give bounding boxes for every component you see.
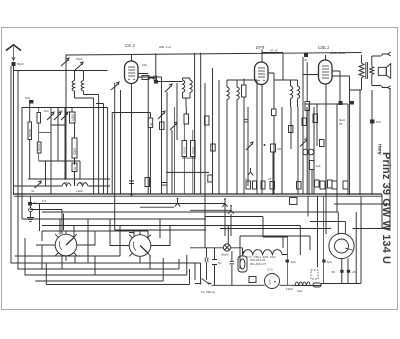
heater pins V2 [228, 206, 234, 213]
wire row 230 [115, 229, 207, 231]
variable capacitor trimmer 9 [170, 122, 177, 130]
capacitor CS [212, 260, 217, 265]
capacitor C16 7nF [272, 109, 277, 116]
svg-text:5nF: 5nF [44, 109, 49, 113]
svg-text:15000: 15000 [37, 143, 41, 151]
wire tuning vertical [65, 55, 67, 180]
node dots row [131, 194, 133, 196]
wire bottom row left [14, 185, 62, 187]
capacitor C7 [149, 76, 157, 81]
svg-text:1000: 1000 [71, 114, 75, 121]
capacitor C33 50uF [347, 270, 350, 273]
svg-text:50000: 50000 [28, 128, 32, 137]
svg-text:HBL 2+4: HBL 2+4 [159, 45, 171, 49]
switch S1 [50, 231, 82, 262]
svg-text:50: 50 [80, 181, 84, 185]
svg-text:47 nF: 47 nF [270, 49, 278, 53]
resistor R2 15000 [37, 113, 41, 154]
capacitor C14b [162, 183, 167, 186]
coil L3 25 [62, 183, 71, 186]
variable capacitor trimmer 6 [54, 112, 61, 120]
svg-text:25: 25 [64, 181, 68, 185]
variable capacitor trimmer 4 [165, 84, 172, 92]
wire osc section [148, 77, 161, 194]
variable capacitor trimmer 2 15pF [75, 62, 83, 70]
title text [377, 144, 393, 264]
svg-text:PF: PF [339, 122, 343, 126]
small row boxes right [320, 181, 325, 189]
resistor R14 [310, 161, 315, 170]
resistor R4 5000 [72, 138, 77, 158]
capacitor C-ant 50pF [12, 62, 16, 66]
rectifier CY1 [265, 274, 280, 289]
wire osc trim [167, 92, 172, 194]
transformer core [366, 62, 368, 79]
ground bus main [14, 193, 382, 195]
wire if3 top [274, 53, 298, 81]
wire left rail [10, 66, 12, 263]
node det junction [264, 144, 266, 146]
ground fork det [248, 168, 254, 175]
wire mid verticals left [18, 71, 22, 257]
svg-text:50: 50 [332, 270, 336, 274]
capacitor C17 [244, 119, 248, 122]
svg-text:120V: 120V [286, 287, 293, 291]
wire can leads [342, 259, 348, 284]
wire bottom chain [195, 263, 294, 285]
coil T1b [190, 78, 192, 98]
resistor R8 [184, 114, 189, 124]
resistor R12 1M [271, 144, 282, 152]
potentiometer P1 [300, 139, 307, 147]
wire if2 top [227, 80, 257, 85]
barretter tube [238, 256, 247, 272]
svg-text:220Ω 22kΩ: 220Ω 22kΩ [330, 51, 346, 55]
transformer secondary [370, 67, 374, 75]
coil L4 50 [77, 183, 88, 186]
lamp Skala [221, 244, 231, 257]
wire center verticals [177, 53, 219, 230]
resistor R3 1000 [70, 112, 76, 123]
capacitor C13 5nF [154, 80, 158, 84]
resistor R1 50000 [28, 122, 32, 140]
resistor R20 [320, 140, 325, 147]
variable capacitor trimmer 8 [158, 111, 165, 119]
resistor R18 [211, 144, 215, 151]
resistor pair R9 R10 [182, 141, 195, 157]
wire CK2 anode right [138, 53, 162, 80]
svg-text:50: 50 [73, 166, 77, 170]
electrolytic can [329, 233, 354, 258]
capacitor C20 [304, 53, 308, 57]
speaker LS [378, 64, 390, 79]
svg-text:RD-ADV-CT: RD-ADV-CT [250, 262, 267, 266]
svg-text:5nF: 5nF [376, 120, 381, 124]
capacitor C3 5nF [29, 100, 34, 104]
resistor R22 [289, 126, 293, 133]
mains switch [196, 279, 212, 284]
capacitor C14 [129, 230, 134, 233]
svg-text:5nF: 5nF [58, 109, 63, 113]
wire coil bottom [75, 95, 104, 195]
switch S2 [124, 231, 156, 262]
svg-text:AµF: AµF [291, 260, 297, 264]
heater pins V0 [140, 199, 180, 207]
wire if1 links [183, 78, 191, 107]
variable capacitor trimmer 7 [61, 112, 68, 120]
variable capacitor trimmer 10 [246, 142, 253, 150]
svg-text:+4µF: +4µF [76, 189, 83, 193]
wire bottom rail [294, 196, 361, 286]
heater chain coils [243, 250, 288, 255]
box CRD [249, 277, 256, 283]
resistor R5 [142, 76, 149, 80]
wire CK2 cathode down [131, 84, 133, 196]
wire det verticals [248, 85, 314, 195]
wire avc row [80, 161, 110, 179]
wire trimmer drops [28, 107, 80, 194]
svg-text:5µ: 5µ [218, 261, 222, 265]
resistor R15 [160, 122, 165, 130]
capacitor C22 5nF [370, 120, 375, 124]
capacitor C32 50uF [340, 270, 343, 273]
svg-text:6,3: 6,3 [42, 199, 47, 203]
svg-text:CBL1: CBL1 [318, 45, 330, 50]
wire antenna input [14, 70, 108, 72]
wire hf bus [22, 108, 151, 195]
resistor R heat coil [295, 282, 310, 285]
coil L1 [72, 71, 74, 99]
svg-text:30: 30 [149, 122, 153, 126]
coil L2 [81, 71, 83, 95]
heater pins V1 [222, 200, 228, 207]
svg-text:CK 2: CK 2 [125, 43, 136, 48]
wire if1 top [157, 81, 183, 83]
wire right drops [360, 90, 372, 195]
svg-text:25: 25 [268, 177, 272, 181]
variable capacitor trimmer 5 [47, 112, 54, 120]
capacitor CS2 [205, 258, 208, 263]
svg-text:5nF: 5nF [25, 96, 30, 100]
speaker terminals [382, 52, 391, 89]
svg-text:1: 1 [269, 280, 272, 286]
wire osc verticals [115, 83, 121, 230]
wire right rail [381, 194, 383, 229]
capacitor C12 [129, 181, 134, 184]
resistor R16 [205, 116, 210, 125]
coil T2b [237, 80, 239, 194]
capacitor C31 [322, 260, 325, 263]
svg-text:Fa. 58ung: Fa. 58ung [201, 290, 215, 294]
svg-text:AµF: AµF [327, 260, 333, 264]
diode plates [303, 149, 309, 155]
svg-text:15pF: 15pF [76, 57, 83, 61]
wire antenna down [13, 66, 15, 195]
wire switch wiring nest [11, 204, 241, 285]
wire mid rows [166, 171, 209, 173]
capacitor C9 [35, 181, 42, 188]
resistor R13 [313, 114, 318, 123]
wire EF9 grid cap [262, 50, 283, 63]
wire secondary leads [372, 56, 381, 86]
wire lamp row [190, 244, 243, 285]
svg-text:5nF: 5nF [152, 76, 157, 80]
capacitor C21 5nF [305, 102, 310, 111]
svg-text:5000: 5000 [73, 148, 77, 155]
wire CBL1 top [325, 55, 327, 60]
svg-text:EF9: EF9 [256, 45, 265, 50]
variable capacitor trimmer 3 [111, 82, 119, 90]
resistor R23 [302, 118, 306, 126]
coil T3a [291, 80, 293, 107]
wire CBL1 anode [332, 71, 350, 195]
svg-text:1kΩ: 1kΩ [297, 289, 303, 293]
svg-text:nF: nF [31, 189, 35, 193]
coil T1a [183, 78, 185, 98]
svg-text:50pF: 50pF [17, 62, 24, 66]
svg-text:1µF: 1µF [316, 164, 321, 168]
variable capacitor trimmer 1 [61, 58, 69, 66]
capacitor C30 [286, 260, 290, 263]
svg-text:10000: 10000 [183, 146, 187, 154]
resistor R19 [145, 178, 150, 187]
wire top bus B+ [66, 53, 362, 56]
svg-text:mF: mF [303, 58, 307, 62]
wire grid cap CK2 [131, 55, 133, 61]
resistor R17 [208, 175, 213, 182]
svg-text:0,1: 0,1 [245, 177, 250, 181]
svg-text:CY1: CY1 [267, 268, 273, 272]
wire lower bus rows [42, 88, 390, 284]
small row boxes detector [246, 181, 251, 189]
antenna [6, 45, 21, 51]
wire down from bus [309, 84, 348, 234]
voltage selector plug [313, 283, 321, 287]
voltage selector dashed box [311, 270, 318, 279]
output transformer T4 primary [350, 55, 365, 90]
resistor R11 [242, 85, 247, 97]
ground symbol left [28, 202, 32, 206]
wire CBL1 left [303, 57, 319, 194]
wire EF9 anode [268, 73, 274, 194]
resistor R21 [328, 180, 333, 188]
resistor RB box [290, 198, 298, 205]
svg-text:+50: +50 [352, 270, 357, 274]
resistor R6 100 [72, 163, 77, 172]
svg-text:1M: 1M [277, 147, 282, 151]
coil T3b [298, 80, 300, 107]
svg-text:10k: 10k [142, 63, 147, 67]
resistor R7 30 [148, 118, 153, 128]
wire screen bus [305, 103, 348, 105]
svg-text:Skala: Skala [221, 253, 229, 257]
coil T2a [227, 80, 229, 194]
svg-text:5µ: 5µ [34, 201, 38, 205]
wire switch rows [22, 204, 230, 264]
